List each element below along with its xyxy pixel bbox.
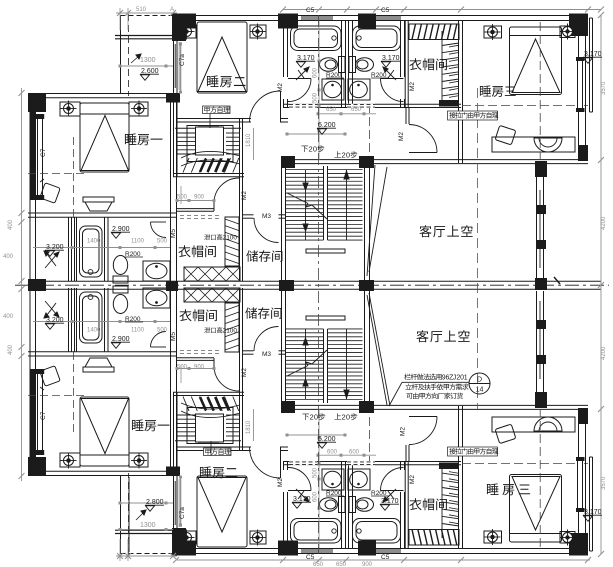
outer wall top: [173, 15, 588, 17]
wall tick right centerline: [554, 277, 560, 284]
note owner top: [203, 106, 231, 114]
note sliding door bottom: [448, 447, 498, 456]
column black top wall mid1: [278, 14, 298, 29]
svg-text:M3: M3: [262, 351, 271, 358]
small stair left wall: [173, 118, 175, 177]
note owner bottom: [204, 448, 232, 456]
cloakroom-corridor wall: [177, 208, 214, 210]
sink bathroom-left: [143, 261, 170, 281]
svg-text:400: 400: [8, 219, 14, 230]
basin bedroom3: [534, 138, 562, 152]
small stair right wall: [239, 118, 241, 281]
label bedroom2 bottom: [200, 466, 212, 478]
window C5 over bathtub 1: [301, 16, 333, 20]
label bedroom1 top: [125, 133, 137, 145]
svg-text:1100: 1100: [131, 328, 145, 334]
cloakroom black block: [439, 100, 459, 107]
svg-text:500: 500: [313, 92, 319, 103]
window C7 bedroom1 left: [36, 114, 44, 200]
svg-text:M2: M2: [241, 368, 248, 377]
label living void top: [419, 225, 431, 237]
svg-text:M5: M5: [170, 229, 177, 238]
small stair fan treads: [181, 151, 240, 158]
svg-text:500: 500: [157, 239, 168, 245]
svg-text:400: 400: [3, 314, 14, 320]
dim marks top-left: [116, 12, 177, 14]
stair direction arrows: [305, 170, 307, 240]
column black right mid upper: [535, 161, 547, 177]
svg-text:M2: M2: [409, 82, 416, 91]
svg-text:0: 0: [314, 412, 318, 421]
bed bedroom2: [197, 22, 247, 93]
toilet bathroom1: [320, 58, 338, 72]
bedroom1 left outer wall: [29, 93, 31, 281]
grid dashed vertical living void: [477, 88, 479, 410]
column black terrace corner: [172, 14, 196, 29]
nightstand bedroom2 left: [181, 25, 196, 38]
dim vertical at bedroom2 window: [180, 44, 182, 92]
grid axis segment bedroom1: [73, 137, 75, 219]
label cloakroom small top: [178, 245, 190, 257]
label storage bottom: [245, 307, 257, 318]
mullion block right wall 1: [537, 205, 546, 214]
svg-text:M2: M2: [277, 478, 284, 487]
stair center rail: [323, 166, 325, 240]
svg-text:D: D: [477, 377, 482, 384]
svg-text:4200: 4200: [601, 346, 607, 360]
window C7a bedroom2 left: [179, 42, 182, 90]
stair break line: [287, 193, 308, 204]
door M5 cloakroom small: [213, 199, 215, 211]
sink bathroom2: [348, 79, 370, 100]
svg-text:900: 900: [362, 562, 373, 567]
small stair bottom wall: [173, 173, 244, 175]
svg-text:1400: 1400: [87, 328, 101, 334]
svg-text:650: 650: [313, 562, 324, 567]
bedroom3 right wall: [578, 36, 580, 146]
window bedroom3 right: [577, 59, 585, 110]
note vent top: [204, 234, 210, 240]
bathtub bathroom-left: [80, 226, 103, 277]
svg-text:900: 900: [194, 195, 205, 201]
stool bedroom3: [495, 125, 516, 145]
label bedroom3 top: [480, 85, 491, 96]
toilet bathroom2: [356, 58, 374, 72]
shower arrow bathroom2: [385, 69, 396, 80]
right mid wall: [536, 177, 538, 278]
door bathroom1: [288, 78, 311, 80]
armchair bedroom1: [40, 183, 61, 204]
svg-text:650: 650: [336, 562, 347, 567]
svg-text:M2: M2: [241, 191, 248, 200]
svg-text:14: 14: [476, 387, 484, 394]
svg-text:C7: C7: [40, 148, 47, 157]
grid dashed line terrace: [128, 14, 130, 96]
svg-text:0: 0: [346, 412, 350, 421]
svg-text:600: 600: [313, 67, 319, 78]
nightstand bedroom1 left: [60, 102, 80, 116]
bathtub bathroom2: [353, 26, 401, 51]
svg-text:3570: 3570: [601, 476, 607, 490]
svg-text:C5: C5: [306, 554, 315, 561]
grid axis segment x369: [369, 104, 371, 160]
bathroom2 left wall: [348, 21, 350, 108]
small stair dark wedges: [200, 159, 206, 173]
lamp symbol bedroom3 right redraw: [563, 27, 573, 37]
column black top-right corner: [569, 14, 588, 37]
sliding door dashes bathroom1: [289, 104, 317, 108]
svg-text:0: 0: [346, 150, 350, 159]
void diagonal top: [367, 165, 375, 276]
stair treads: [286, 169, 324, 171]
svg-text:0: 0: [233, 328, 237, 335]
detail bubble 14: [469, 373, 490, 394]
dim line hall 650: [319, 113, 376, 115]
mirrored lower half geometry: [28, 286, 593, 561]
column black top wall mid2: [358, 14, 376, 29]
svg-text:M2: M2: [400, 427, 407, 436]
bathrooms south wall: [283, 103, 461, 105]
bedroom1 top wall: [28, 93, 177, 95]
label living void bottom: [416, 330, 428, 342]
nightstand bedroom2 right: [250, 25, 266, 38]
sliding door dashes bathroom2: [347, 104, 375, 108]
window C5 over bathtub 2: [372, 16, 401, 20]
cloakroom top closet hatch: [409, 24, 459, 40]
svg-text:400: 400: [3, 254, 14, 260]
label cloakroom bottom: [409, 498, 421, 510]
label stair down20 bottom: [302, 414, 309, 420]
label bedroom2 top: [207, 75, 219, 87]
svg-text:500: 500: [157, 328, 168, 334]
shower arrows bathroom-left: [45, 254, 57, 268]
label stair up20 top: [334, 151, 341, 157]
column black centerline corridor: [166, 281, 178, 291]
svg-text:1810: 1810: [246, 420, 252, 434]
bathroom1 left wall: [283, 21, 285, 77]
column black centerline left: [28, 279, 46, 291]
svg-text:M2: M2: [277, 83, 284, 92]
railing note text: [404, 374, 410, 380]
svg-text:M2: M2: [409, 475, 416, 484]
mullion block right wall 2: [537, 240, 546, 249]
door bathroom-left entry: [151, 221, 167, 223]
svg-text:C5: C5: [381, 554, 390, 561]
stairwell right wall: [364, 164, 366, 281]
svg-text:M5: M5: [170, 332, 177, 341]
dim line stair 1810: [253, 128, 255, 160]
small stair frame: [187, 126, 233, 162]
svg-text:1400: 1400: [87, 239, 101, 245]
bathroom1 right wall: [341, 21, 343, 108]
desk bedroom3: [492, 137, 575, 152]
svg-text:4200: 4200: [601, 216, 607, 230]
small stair treads: [177, 132, 195, 134]
svg-text:600: 600: [327, 450, 338, 456]
small stair core: [196, 127, 224, 155]
storage north wall: [242, 214, 254, 216]
column black top-left bedroom1: [28, 93, 46, 112]
bedroom2 south wall: [177, 118, 251, 120]
dim line vertical interior bathrooms: [318, 21, 320, 160]
shower arrow bathroom1: [296, 69, 307, 80]
dim line corridor 500-900: [177, 200, 214, 202]
svg-text:0: 0: [313, 144, 317, 153]
svg-text:3570: 3570: [601, 81, 607, 95]
closet dashed rod: [180, 215, 222, 217]
svg-text:A: A: [170, 7, 174, 13]
bedroom1 south wall: [28, 212, 177, 214]
bathroom-left partition 2: [104, 217, 106, 281]
bed bedroom3: [510, 27, 562, 95]
svg-text:900: 900: [194, 365, 205, 371]
grid axis bedroom3 vertical: [539, 22, 541, 160]
nightstand bedroom3 right: [560, 26, 575, 38]
label cloakroom top: [409, 58, 421, 70]
grid axis vertical bathrooms: [318, 15, 320, 554]
svg-text:C5: C5: [381, 7, 390, 14]
svg-text:650: 650: [351, 107, 362, 113]
nightstand bedroom1 right: [129, 102, 148, 116]
railing note leader: [402, 381, 469, 383]
bathtub bathroom1: [291, 26, 342, 51]
bed bedroom1: [80, 103, 129, 172]
column black stairwell NE: [359, 156, 374, 168]
small stair top edge: [175, 127, 241, 129]
svg-text:600: 600: [313, 491, 319, 502]
column black bedroom1 NE: [166, 93, 180, 103]
svg-text:C7: C7: [40, 411, 47, 420]
svg-text:M3: M3: [262, 213, 271, 220]
sink bathroom1: [322, 79, 344, 100]
svg-text:C7a: C7a: [179, 54, 186, 66]
label cloakroom small bottom: [179, 309, 191, 321]
note vent bottom: [204, 327, 210, 333]
svg-text:500: 500: [313, 467, 319, 478]
svg-text:M2: M2: [398, 132, 405, 141]
svg-text:1: 1: [464, 375, 468, 382]
label stair up20 bottom: [334, 413, 341, 419]
note sliding door top: [448, 111, 498, 120]
dim line bottom-left terrace: [116, 555, 177, 557]
svg-text:1100: 1100: [131, 239, 145, 245]
dim line bottom edge: [176, 559, 590, 561]
dim line top edge: [283, 9, 601, 11]
mid band wall: [281, 159, 588, 161]
terrace upper-left wall: [120, 15, 122, 93]
bathroom2 right wall: [400, 21, 402, 77]
svg-text:650: 650: [326, 107, 337, 113]
svg-text:1810: 1810: [246, 133, 252, 147]
nightstand bedroom3 left: [484, 26, 502, 38]
label stair down20 top: [301, 146, 308, 152]
svg-text:600: 600: [349, 450, 360, 456]
svg-text:1300: 1300: [140, 522, 156, 529]
column black centerline stair E: [359, 280, 374, 291]
cloakroom right closet hangers: [441, 31, 443, 101]
door M3 storage: [254, 218, 279, 243]
svg-text:500: 500: [177, 365, 188, 371]
stairwell left wall: [281, 164, 283, 281]
bedroom2 left wall: [173, 41, 175, 118]
wardrobe X cloakroom small: [184, 267, 240, 281]
dim line hall 5200: [287, 133, 345, 135]
bedroom1 / corridor wall: [170, 98, 172, 281]
svg-text:500: 500: [177, 195, 188, 201]
label bedroom1 bottom: [132, 419, 144, 431]
stair landing rail: [306, 249, 345, 253]
void diagonal bottom: [369, 293, 390, 406]
svg-text:0: 0: [233, 235, 237, 242]
door M2 hall to dressing: [409, 152, 437, 154]
column black stairwell NW: [281, 156, 295, 168]
dim line right edge: [600, 15, 602, 554]
party wall centerline: [28, 280, 601, 282]
column black centerline right: [535, 278, 547, 290]
column black centerline stair W: [279, 280, 294, 291]
railing outside bedroom3: [589, 18, 591, 112]
dim line terrace 1300: [120, 65, 173, 67]
svg-text:C7a: C7a: [179, 507, 186, 519]
bathroom-left partition 1: [68, 217, 70, 281]
svg-text:510: 510: [136, 7, 147, 13]
label storage top: [246, 250, 258, 261]
label bedroom3 bottom: [487, 483, 499, 495]
svg-text:1300: 1300: [140, 57, 156, 64]
svg-text:C5: C5: [306, 7, 315, 14]
dim line bathroom-left: [33, 247, 170, 249]
grid axis bedroom3 horizontal: [462, 105, 588, 107]
door M2 bedroom2: [280, 91, 282, 122]
dresser bedroom1: [83, 197, 114, 202]
door stub wall hall: [405, 108, 407, 124]
toilet bathroom-left: [113, 256, 127, 275]
dim line left edge: [21, 88, 23, 481]
door bathroom2: [381, 78, 404, 80]
svg-text:400: 400: [8, 344, 14, 355]
closet hatch strip cloakroom small: [225, 217, 239, 266]
column black bedroom3 SE: [578, 145, 588, 161]
cloakroom / bedroom3 wall: [458, 21, 460, 163]
